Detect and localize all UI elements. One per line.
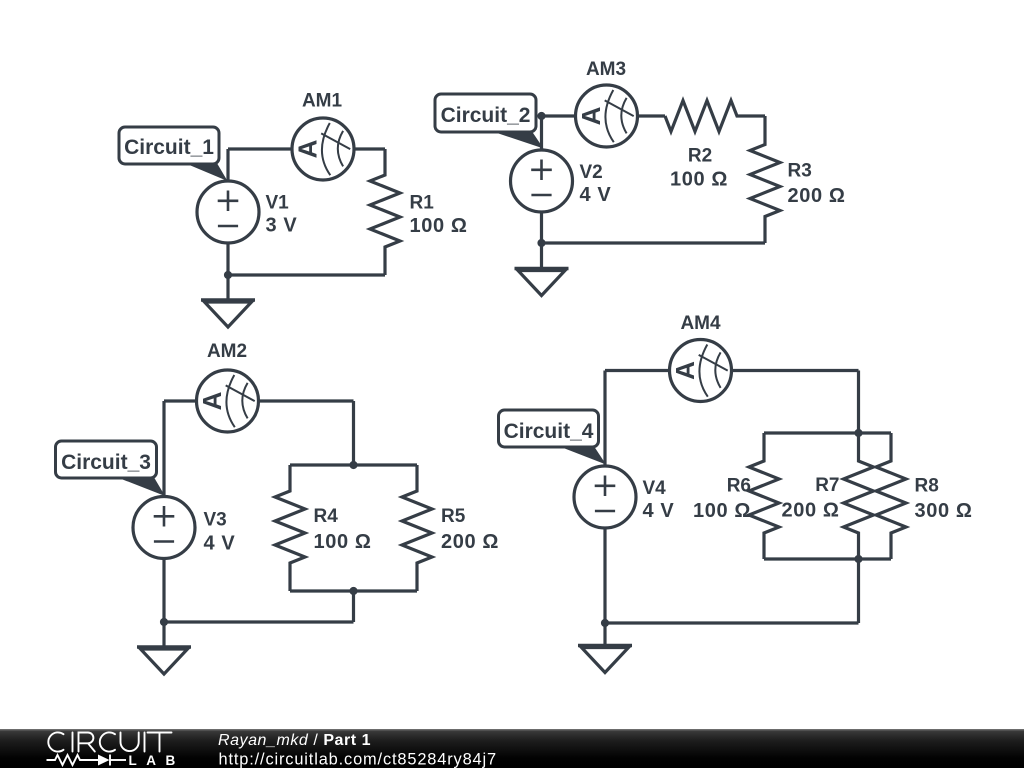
svg-text:Rayan_mkd / Part 1: Rayan_mkd / Part 1	[218, 732, 371, 749]
ground C1	[201, 275, 255, 327]
wire left C2	[540, 116, 543, 243]
node dot C1	[224, 271, 232, 279]
svg-text:200 Ω: 200 Ω	[782, 500, 840, 522]
voltage source V4	[574, 466, 636, 528]
svg-text:R3: R3	[788, 161, 812, 182]
ammeter AM1	[292, 118, 354, 180]
wire left C4	[603, 371, 606, 624]
svg-text:100 Ω: 100 Ω	[314, 531, 372, 553]
ground C3	[137, 622, 191, 674]
resistor R7	[844, 433, 874, 559]
logo LAB schematic	[47, 755, 127, 766]
svg-text:A: A	[197, 391, 227, 410]
svg-text:AM4: AM4	[680, 313, 721, 334]
resistor R3	[750, 116, 780, 243]
svg-text:100 Ω: 100 Ω	[670, 169, 728, 191]
svg-text:A: A	[293, 139, 323, 158]
svg-text:LAB: LAB	[129, 753, 185, 768]
wire top C2	[542, 114, 666, 117]
svg-text:A: A	[576, 106, 606, 125]
node dot C4 bottom	[601, 619, 609, 627]
svg-text:AM1: AM1	[302, 91, 343, 112]
node dot C2 top	[537, 112, 545, 120]
svg-text:4 V: 4 V	[580, 184, 612, 206]
annotation Circuit_1	[119, 127, 228, 181]
node dot C2 bottom	[537, 239, 545, 247]
svg-text:V2: V2	[580, 162, 603, 183]
svg-text:300 Ω: 300 Ω	[915, 500, 973, 522]
svg-text:http://circuitlab.com/ct85284r: http://circuitlab.com/ct85284ry84j7	[219, 751, 497, 768]
svg-text:A: A	[670, 361, 700, 380]
svg-text:200 Ω: 200 Ω	[788, 185, 846, 207]
voltage source V3	[133, 497, 195, 559]
wire bottom C3	[164, 620, 354, 623]
resistor R1	[370, 149, 400, 275]
wire parallel bottom C3	[290, 589, 417, 592]
svg-text:Circuit_2: Circuit_2	[441, 104, 531, 127]
ground C2	[515, 243, 569, 296]
resistor R4	[275, 465, 305, 591]
annotation Circuit_4	[499, 410, 607, 465]
svg-text:V3: V3	[204, 510, 227, 531]
ammeter AM4	[670, 340, 732, 402]
svg-text:V4: V4	[643, 478, 667, 499]
node dot C4 partop	[854, 429, 862, 437]
svg-text:100 Ω: 100 Ω	[693, 500, 751, 522]
wire stem C3	[352, 591, 355, 622]
svg-text:V1: V1	[266, 193, 290, 214]
svg-text:R5: R5	[441, 506, 466, 527]
wire left C3	[162, 401, 165, 622]
svg-text:100 Ω: 100 Ω	[410, 215, 468, 237]
wire stem C4	[857, 559, 860, 623]
svg-text:3 V: 3 V	[266, 215, 298, 237]
wire right C4	[857, 371, 860, 434]
svg-text:R2: R2	[688, 146, 712, 167]
wire bottom C4	[605, 621, 859, 624]
logo CIRCUIT wordmark	[48, 732, 171, 751]
ammeter AM3	[576, 85, 638, 147]
svg-text:4 V: 4 V	[643, 500, 675, 522]
footer bar	[0, 729, 1024, 768]
wire parallel bottom C4	[764, 557, 891, 560]
logo diode triangle	[98, 755, 110, 766]
resistor R5	[402, 465, 432, 591]
voltage source V2	[511, 150, 573, 212]
svg-text:R7: R7	[815, 475, 839, 496]
wire left C1	[226, 149, 229, 275]
svg-text:R6: R6	[727, 476, 751, 497]
resistor R2	[665, 101, 765, 132]
node dot C3 parbottom	[349, 587, 357, 595]
wire top C4	[605, 369, 859, 372]
annotation Circuit_2	[435, 94, 544, 149]
ground C4	[578, 623, 632, 673]
svg-text:200 Ω: 200 Ω	[441, 531, 499, 553]
wire right C3	[352, 401, 355, 465]
wire top C3	[164, 399, 354, 402]
wire bottom C1	[228, 273, 385, 276]
resistor R8	[876, 433, 906, 559]
svg-text:Circuit_3: Circuit_3	[61, 451, 151, 474]
svg-text:AM2: AM2	[207, 341, 247, 362]
svg-text:R8: R8	[915, 476, 939, 497]
resistor R6	[749, 433, 779, 559]
node dot C3 bottom	[160, 618, 168, 626]
voltage source V1	[197, 181, 259, 243]
svg-text:R4: R4	[314, 506, 339, 527]
svg-text:R1: R1	[410, 193, 435, 214]
annotation Circuit_3	[56, 441, 166, 496]
node dot C3 partop	[349, 461, 357, 469]
ammeter AM2	[197, 370, 259, 432]
svg-text:AM3: AM3	[586, 59, 626, 80]
wire top C1	[228, 147, 385, 150]
wire parallel top C4	[764, 431, 891, 434]
node dot C4 parbottom	[854, 555, 862, 563]
svg-text:Circuit_4: Circuit_4	[504, 420, 594, 443]
svg-text:4 V: 4 V	[204, 533, 236, 555]
wire parallel top C3	[290, 463, 417, 466]
wire bottom C2	[542, 241, 766, 244]
svg-text:Circuit_1: Circuit_1	[124, 136, 214, 159]
